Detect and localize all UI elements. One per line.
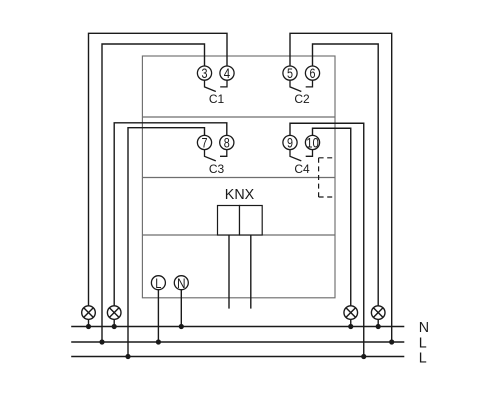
- svg-text:C2: C2: [294, 92, 310, 106]
- svg-text:10: 10: [306, 135, 319, 151]
- svg-text:KNX: KNX: [225, 187, 255, 203]
- svg-text:L: L: [155, 275, 161, 291]
- svg-text:C3: C3: [209, 162, 225, 176]
- svg-text:5: 5: [287, 65, 293, 81]
- svg-text:L: L: [419, 335, 427, 351]
- svg-text:N: N: [177, 275, 186, 291]
- svg-text:C1: C1: [209, 92, 225, 106]
- svg-text:6: 6: [310, 65, 316, 81]
- svg-text:L: L: [419, 351, 427, 367]
- svg-text:N: N: [419, 320, 429, 336]
- svg-text:9: 9: [287, 135, 293, 151]
- svg-text:8: 8: [224, 135, 230, 151]
- svg-text:7: 7: [202, 135, 208, 151]
- svg-text:4: 4: [224, 65, 231, 81]
- svg-text:3: 3: [202, 65, 208, 81]
- svg-text:C4: C4: [294, 162, 310, 176]
